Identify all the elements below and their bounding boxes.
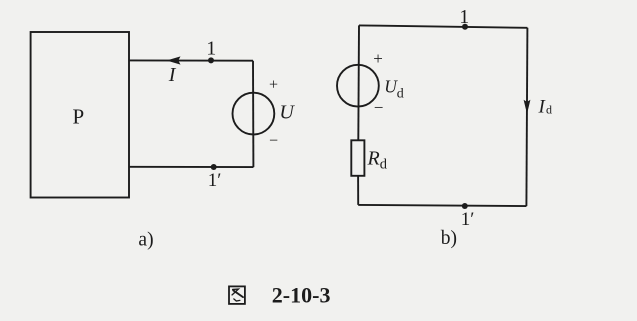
svg-text:d: d <box>546 103 552 117</box>
svg-text:−: − <box>374 98 384 117</box>
svg-text:1: 1 <box>206 37 216 59</box>
svg-text:+: + <box>269 76 278 93</box>
svg-text:a): a) <box>138 229 153 250</box>
svg-text:d: d <box>397 86 404 101</box>
svg-text:1′: 1′ <box>461 209 475 230</box>
svg-text:b): b) <box>441 228 457 249</box>
svg-text:1′: 1′ <box>208 170 222 191</box>
svg-text:+: + <box>373 49 383 68</box>
svg-text:1: 1 <box>459 6 469 28</box>
svg-text:−: − <box>269 133 278 150</box>
svg-text:I: I <box>168 64 177 86</box>
svg-text:P: P <box>72 105 84 129</box>
svg-text:U: U <box>279 102 295 124</box>
svg-text:R: R <box>367 148 380 170</box>
svg-text:d: d <box>380 156 388 172</box>
svg-text:2-10-3: 2-10-3 <box>272 283 331 308</box>
